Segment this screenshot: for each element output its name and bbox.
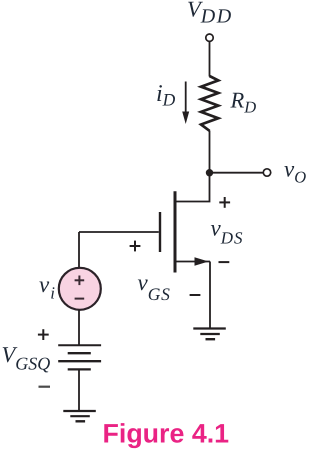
label vO — [284, 157, 306, 187]
label VGSQ — [2, 342, 51, 374]
svg-text:vi: vi — [39, 272, 55, 303]
wire resistor to node — [209, 131, 211, 174]
plus vGS — [130, 241, 141, 252]
svg-text:VGSQ: VGSQ — [2, 342, 51, 374]
battery VGSQ — [58, 345, 101, 369]
ground battery — [63, 411, 96, 421]
wire vi to battery — [78, 310, 80, 346]
resistor RD — [201, 76, 218, 131]
wire gate to source vi — [78, 232, 80, 268]
transistor Q gate bar — [159, 212, 161, 252]
plus inside vi — [75, 276, 85, 286]
svg-text:vO: vO — [284, 157, 306, 187]
svg-text:Figure 4.1: Figure 4.1 — [103, 419, 230, 449]
caption Figure 4.1 — [103, 419, 230, 449]
svg-text:vDS: vDS — [211, 216, 244, 248]
wire gate lead — [79, 231, 159, 233]
svg-text:vGS: vGS — [138, 270, 171, 304]
ground source — [193, 329, 226, 340]
minus VGSQ — [39, 386, 51, 388]
transistor Q source arrow — [195, 257, 209, 265]
label RD — [230, 88, 257, 117]
minus inside vi — [75, 298, 85, 300]
label vDS — [211, 216, 244, 248]
wire VDD to resistor — [209, 42, 211, 77]
wire node to drain — [176, 173, 210, 202]
source vi circle — [59, 268, 101, 310]
svg-text:VDD: VDD — [187, 0, 233, 28]
label vGS — [138, 270, 171, 304]
wire source lead — [176, 261, 210, 263]
plus VGSQ — [38, 329, 49, 340]
label vi — [39, 272, 55, 303]
minus vGS — [190, 294, 201, 296]
label VDD — [187, 0, 233, 28]
svg-text:iD: iD — [156, 81, 176, 110]
terminal VDD — [206, 34, 213, 41]
wire source to ground — [209, 262, 211, 329]
svg-text:RD: RD — [230, 88, 257, 117]
wire battery to ground — [78, 369, 80, 411]
wire node to vO terminal — [210, 172, 264, 174]
minus vDS — [219, 261, 230, 263]
current arrow iD — [182, 82, 189, 125]
terminal vO — [263, 169, 270, 176]
plus vDS — [219, 197, 230, 208]
transistor Q channel bar — [174, 191, 177, 272]
node drain junction — [206, 169, 213, 176]
label iD — [156, 81, 176, 110]
